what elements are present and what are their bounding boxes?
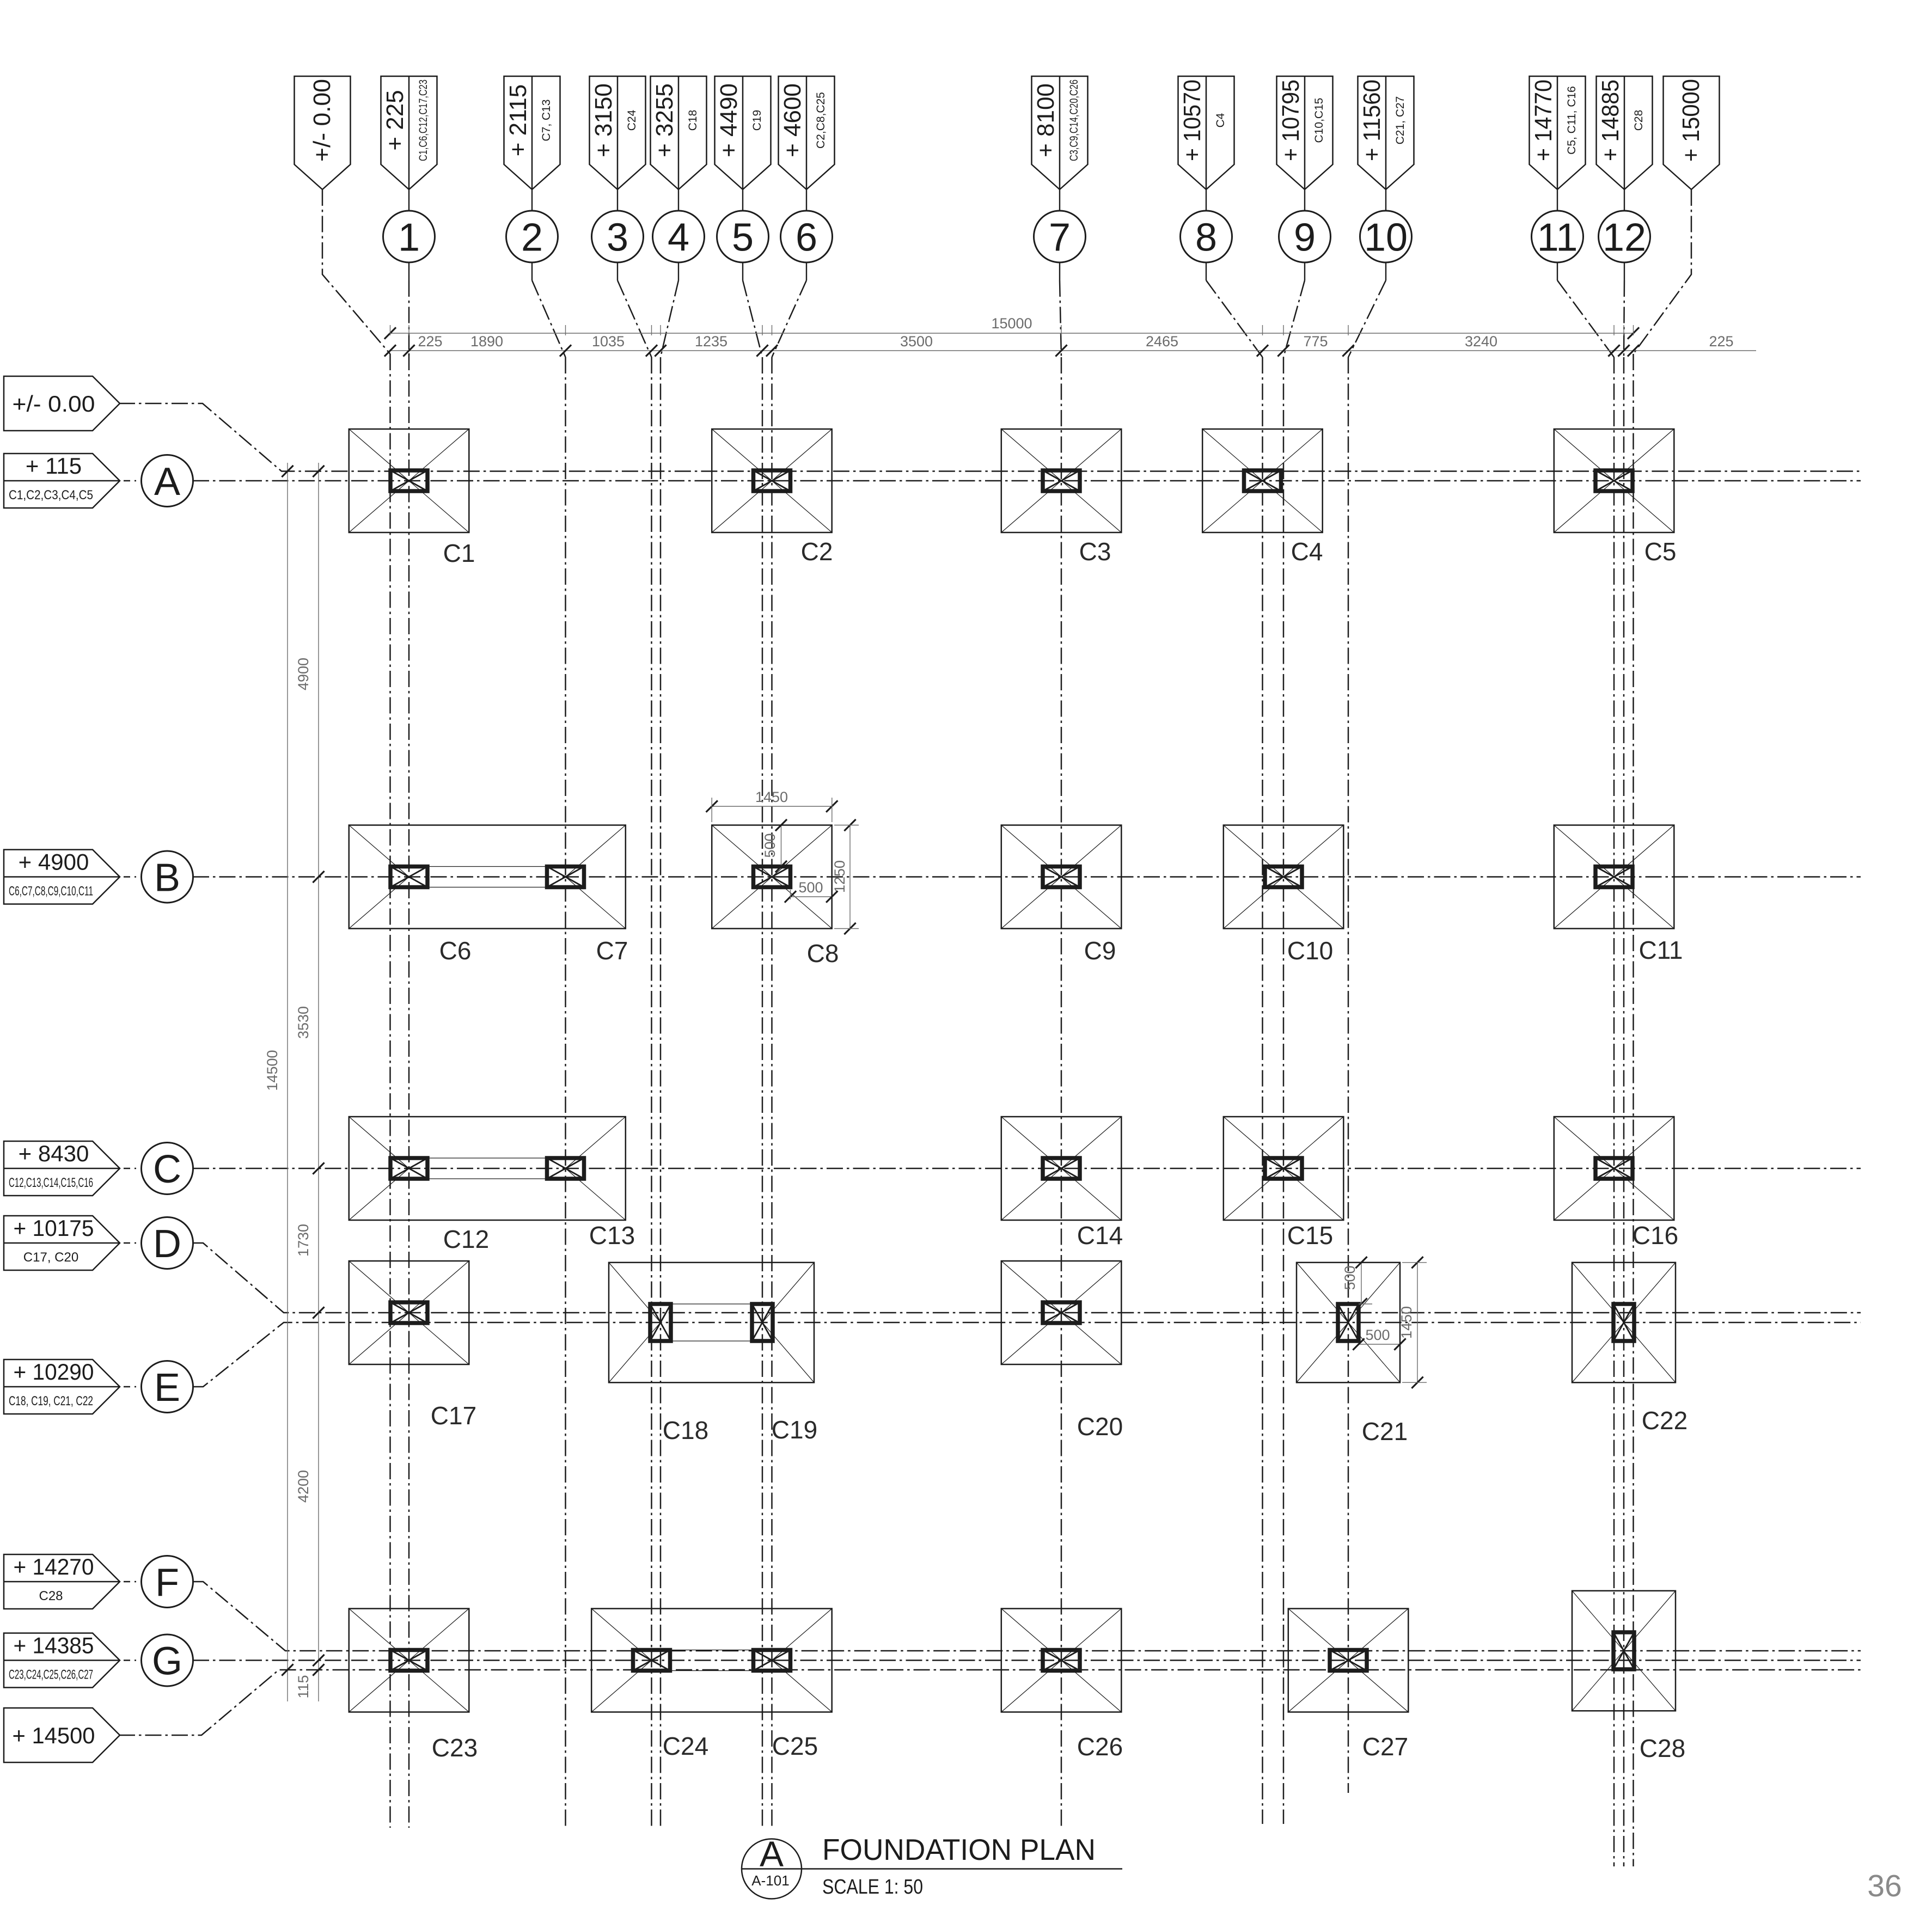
svg-text:C8: C8: [807, 939, 839, 967]
grid bubble A: [142, 455, 193, 507]
svg-text:1250: 1250: [832, 860, 848, 893]
svg-text:C7, C13: C7, C13: [540, 99, 553, 141]
grid bubble D: [142, 1217, 193, 1269]
level flag level F: [4, 1554, 120, 1609]
svg-text:6: 6: [796, 216, 817, 260]
svg-text:C14: C14: [1077, 1221, 1123, 1250]
svg-text:C12: C12: [443, 1225, 489, 1253]
svg-text:+ 4900: + 4900: [19, 849, 89, 875]
svg-text:+ 3255: + 3255: [651, 83, 678, 157]
grid line 12: [1623, 357, 1625, 1866]
svg-text:C18: C18: [687, 110, 699, 131]
footing C23: [349, 1609, 469, 1712]
svg-text:C10: C10: [1287, 936, 1333, 965]
title line: [741, 1868, 1122, 1870]
svg-text:C20: C20: [1077, 1412, 1123, 1441]
grid flag line 4: [651, 76, 707, 189]
level flag level +/-0.00: [4, 376, 120, 431]
svg-text:D: D: [153, 1222, 181, 1266]
svg-text:1450: 1450: [1398, 1306, 1415, 1339]
footing C20: [1001, 1261, 1122, 1364]
svg-text:C4: C4: [1291, 537, 1323, 566]
svg-text:1: 1: [398, 216, 420, 260]
dimension 1450 at C8: [712, 806, 832, 807]
level flag level B: [4, 849, 120, 904]
overall dimension 15000: [390, 333, 1634, 334]
svg-text:36: 36: [1867, 1869, 1902, 1903]
grid flag line 7: [1032, 76, 1088, 189]
svg-text:5: 5: [732, 216, 754, 260]
grid bubble 3: [592, 211, 644, 262]
svg-text:C4: C4: [1214, 113, 1227, 127]
svg-text:C1,C2,C3,C4,C5: C1,C2,C3,C4,C5: [9, 488, 93, 503]
svg-text:10: 10: [1364, 216, 1408, 260]
svg-text:C26: C26: [1077, 1732, 1123, 1761]
leader 8: [1206, 262, 1207, 280]
grid line G: [193, 1659, 1861, 1661]
combined footing C24+C25: [591, 1609, 832, 1712]
svg-text:1035: 1035: [592, 333, 625, 350]
leader 15000: [1634, 189, 1692, 354]
footing C10: [1224, 825, 1344, 929]
svg-text:C13: C13: [589, 1221, 635, 1250]
title bubble A / A-101: [742, 1839, 802, 1899]
svg-text:2465: 2465: [1146, 333, 1178, 350]
dimension 1250 at C8: [849, 825, 851, 929]
svg-text:+/- 0.00: +/- 0.00: [309, 79, 335, 162]
svg-text:A: A: [154, 460, 180, 504]
footing C4: [1202, 429, 1323, 532]
svg-text:C25: C25: [772, 1732, 818, 1760]
leader 3: [617, 262, 618, 280]
svg-text:775: 775: [1303, 333, 1328, 350]
svg-text:C1: C1: [443, 539, 475, 567]
grid line 10: [1348, 357, 1349, 1793]
leader 5: [742, 262, 743, 280]
grid line 5: [762, 357, 763, 1827]
svg-text:2: 2: [521, 216, 543, 260]
svg-text:500: 500: [1342, 1265, 1358, 1290]
grid line C: [193, 1168, 1861, 1169]
overall vertical dimension 14500: [287, 463, 288, 1701]
level flag level +14500: [4, 1708, 120, 1762]
svg-text:C24: C24: [626, 109, 638, 131]
svg-text:3500: 3500: [900, 333, 933, 350]
grid line 7: [1061, 357, 1062, 1828]
svg-text:C12,C13,C14,C15,C16: C12,C13,C14,C15,C16: [9, 1175, 93, 1190]
level flag level G: [4, 1633, 120, 1688]
svg-text:14500: 14500: [264, 1050, 280, 1091]
svg-text:+ 14270: + 14270: [14, 1554, 94, 1579]
grid bubble F: [142, 1556, 193, 1608]
footing C9: [1001, 825, 1122, 929]
grid line 3: [651, 357, 652, 1828]
svg-text:C28: C28: [1640, 1734, 1685, 1762]
grid line 4: [660, 357, 662, 1828]
svg-text:C18, C19, C21, C22: C18, C19, C21, C22: [9, 1394, 93, 1409]
svg-text:500: 500: [798, 879, 823, 896]
grid bubble 9: [1279, 211, 1331, 262]
svg-text:C22: C22: [1642, 1406, 1688, 1435]
combined footing C18+C19: [609, 1263, 814, 1383]
dimension 500 horizontal at C8: [791, 896, 832, 897]
svg-text:C15: C15: [1287, 1221, 1333, 1250]
grid bubble B: [142, 851, 193, 903]
svg-text:+ 10175: + 10175: [14, 1215, 94, 1241]
svg-text:+ 14385: + 14385: [14, 1633, 94, 1658]
svg-text:+ 2115: + 2115: [505, 84, 531, 157]
svg-text:3240: 3240: [1465, 333, 1497, 350]
level flag level E: [4, 1359, 120, 1414]
svg-text:C24: C24: [663, 1732, 708, 1760]
svg-text:+ 10795: + 10795: [1277, 79, 1304, 161]
svg-text:C23,C24,C25,C26,C27: C23,C24,C25,C26,C27: [9, 1668, 93, 1682]
svg-text:C7: C7: [596, 936, 628, 965]
svg-text:+ 3150: + 3150: [590, 83, 617, 157]
svg-text:1890: 1890: [470, 333, 503, 350]
svg-text:C6: C6: [439, 936, 472, 965]
svg-text:C11: C11: [1639, 936, 1683, 964]
svg-text:C5: C5: [1644, 537, 1677, 566]
grid bubble 10: [1360, 211, 1412, 262]
svg-text:15000: 15000: [991, 315, 1032, 332]
svg-text:B: B: [154, 856, 180, 900]
segment dimension line left: [318, 463, 319, 1701]
svg-text:C21: C21: [1362, 1417, 1408, 1446]
dimension 500 vertical at C8: [781, 825, 782, 867]
svg-text:+ 10570: + 10570: [1179, 79, 1206, 161]
footing C21: [1297, 1263, 1400, 1383]
svg-text:+ 4600: + 4600: [779, 83, 806, 157]
footing C3: [1001, 429, 1122, 532]
svg-text:4: 4: [668, 216, 689, 260]
svg-text:+ 225: + 225: [382, 90, 408, 150]
svg-text:C9: C9: [1084, 936, 1116, 965]
svg-text:C17, C20: C17, C20: [23, 1250, 78, 1265]
grid flag line 5: [715, 76, 771, 189]
svg-text:1235: 1235: [695, 333, 727, 350]
svg-text:C: C: [153, 1148, 181, 1191]
svg-text:C28: C28: [39, 1589, 63, 1603]
svg-text:C6,C7,C8,C9,C10,C11: C6,C7,C8,C9,C10,C11: [9, 884, 93, 899]
footing C1: [349, 429, 469, 532]
footing C17: [349, 1261, 469, 1364]
svg-text:+ 115: + 115: [26, 453, 82, 479]
svg-text:C21, C27: C21, C27: [1394, 96, 1407, 145]
grid bubble E: [142, 1361, 193, 1413]
svg-text:A: A: [760, 1834, 784, 1874]
svg-text:225: 225: [1709, 333, 1733, 350]
svg-text:C18: C18: [663, 1416, 708, 1444]
svg-text:+ 14770: + 14770: [1530, 79, 1557, 161]
svg-text:500: 500: [1365, 1327, 1390, 1343]
grid line +/-0.00 horizontal with leader: [119, 403, 1861, 471]
grid line F with leader: [193, 1582, 1861, 1651]
svg-text:C17: C17: [431, 1401, 476, 1430]
grid line 2: [565, 357, 566, 1828]
svg-text:C27: C27: [1362, 1732, 1408, 1761]
grid line B: [193, 876, 1861, 878]
svg-text:115: 115: [295, 1675, 311, 1698]
svg-text:1450: 1450: [755, 789, 788, 805]
grid bubble 7: [1034, 211, 1086, 262]
svg-text:3: 3: [607, 216, 628, 260]
dimension 1450 at C21: [1417, 1263, 1418, 1382]
svg-text:C10,C15: C10,C15: [1313, 98, 1325, 143]
footing C5: [1554, 429, 1674, 532]
footing C2: [712, 429, 832, 532]
grid bubble 6: [781, 211, 833, 262]
combined footing C6+C7: [349, 825, 626, 929]
segment dimension line top: [390, 350, 1757, 351]
grid bubble 4: [653, 211, 705, 262]
grid flag line 9: [1277, 76, 1333, 189]
dimension 500 horizontal at C21: [1359, 1344, 1400, 1345]
grid flag line 12: [1597, 76, 1653, 189]
svg-text:4200: 4200: [295, 1470, 311, 1503]
svg-text:1730: 1730: [295, 1224, 311, 1257]
level flag level A: [4, 453, 120, 508]
svg-text:E: E: [154, 1366, 180, 1410]
footing C26: [1001, 1609, 1122, 1712]
grid bubble 5: [717, 211, 769, 262]
grid line 6: [771, 357, 773, 1827]
level flag level C: [4, 1141, 120, 1196]
leader 4: [678, 262, 679, 280]
grid flag line 11: [1530, 76, 1586, 189]
leader 12: [1624, 262, 1625, 280]
svg-text:+ 8430: + 8430: [19, 1141, 89, 1166]
grid bubble G: [142, 1634, 193, 1686]
grid bubble 2: [506, 211, 558, 262]
svg-text:+ 8100: + 8100: [1032, 83, 1059, 157]
grid line +15000 vertical: [1633, 354, 1634, 1866]
grid line 9: [1283, 357, 1285, 1824]
grid flag line 2: [504, 76, 560, 189]
svg-text:+ 15000: + 15000: [1678, 79, 1704, 162]
leader 11: [1557, 262, 1558, 280]
grid line 8: [1262, 357, 1263, 1824]
grid flag line 1: [381, 76, 437, 189]
grid flag line 8: [1178, 76, 1234, 189]
svg-text:C16: C16: [1633, 1221, 1678, 1250]
grid bubble 12: [1599, 211, 1650, 262]
leader 2: [531, 262, 533, 280]
svg-text:C3,C9,C14,C20,C26: C3,C9,C14,C20,C26: [1068, 79, 1080, 161]
svg-text:+ 4490: + 4490: [716, 83, 742, 157]
grid line +14500 horizontal with leader: [119, 1670, 1861, 1735]
svg-text:C3: C3: [1079, 537, 1111, 566]
grid line +/-0.00 vertical: [389, 354, 391, 1828]
svg-text:C1,C6,C12,C17,C23: C1,C6,C12,C17,C23: [417, 79, 430, 161]
grid bubble C: [142, 1143, 193, 1195]
footing C8: [712, 825, 832, 929]
svg-text:C2,C8,C25: C2,C8,C25: [815, 92, 827, 149]
leader 6: [806, 262, 807, 280]
svg-text:12: 12: [1603, 216, 1646, 260]
grid line D with leader: [193, 1243, 1861, 1313]
grid line 11: [1613, 357, 1615, 1866]
grid flag line 3: [590, 76, 646, 189]
footing C14: [1001, 1117, 1122, 1220]
svg-text:C28: C28: [1633, 110, 1645, 131]
grid flag line +/-0.00: [295, 76, 351, 189]
leader 10: [1385, 262, 1386, 280]
grid flag line +15000: [1664, 76, 1720, 189]
svg-text:A-101: A-101: [751, 1872, 789, 1889]
grid line E with leader: [193, 1322, 1861, 1387]
svg-text:500: 500: [762, 833, 778, 858]
svg-text:SCALE 1: 50: SCALE 1: 50: [822, 1876, 923, 1899]
svg-text:+ 11560: + 11560: [1359, 79, 1385, 161]
svg-text:+ 10290: + 10290: [14, 1359, 94, 1385]
svg-text:8: 8: [1195, 216, 1217, 260]
grid bubble 8: [1181, 211, 1232, 262]
leader 7: [1059, 262, 1060, 280]
footing C22: [1572, 1263, 1676, 1383]
svg-text:C19: C19: [751, 110, 763, 131]
leader 0.00: [322, 189, 390, 354]
grid line 1: [408, 354, 410, 1828]
leader 1: [408, 262, 409, 280]
svg-text:C5, C11, C16: C5, C11, C16: [1566, 86, 1578, 155]
svg-text:3530: 3530: [295, 1006, 311, 1039]
svg-text:+ 14885: + 14885: [1597, 79, 1624, 161]
footing C11: [1554, 825, 1674, 929]
footing C28: [1572, 1591, 1676, 1711]
svg-text:9: 9: [1294, 216, 1316, 260]
grid line A: [193, 480, 1861, 482]
grid bubble 1: [383, 211, 435, 262]
svg-text:C19: C19: [772, 1416, 817, 1444]
svg-text:FOUNDATION PLAN: FOUNDATION PLAN: [822, 1833, 1096, 1866]
svg-text:G: G: [152, 1640, 182, 1683]
footing C15: [1224, 1117, 1344, 1220]
level flag level D: [4, 1215, 120, 1270]
svg-text:11: 11: [1537, 216, 1578, 260]
footing C16: [1554, 1117, 1674, 1220]
svg-text:7: 7: [1049, 216, 1071, 260]
dimension 500 vertical at C21: [1361, 1263, 1362, 1304]
leader 9: [1304, 262, 1305, 280]
grid bubble 11: [1532, 211, 1583, 262]
svg-text:C23: C23: [432, 1734, 478, 1762]
svg-text:+ 14500: + 14500: [13, 1723, 95, 1748]
footing C27: [1288, 1609, 1409, 1712]
grid flag line 10: [1358, 76, 1414, 189]
svg-text:F: F: [155, 1561, 179, 1605]
svg-text:225: 225: [418, 333, 442, 350]
svg-text:C2: C2: [801, 537, 833, 566]
svg-text:4900: 4900: [295, 658, 311, 690]
svg-text:+/- 0.00: +/- 0.00: [13, 391, 95, 417]
grid flag line 6: [779, 76, 835, 189]
combined footing C12+C13: [349, 1117, 626, 1220]
